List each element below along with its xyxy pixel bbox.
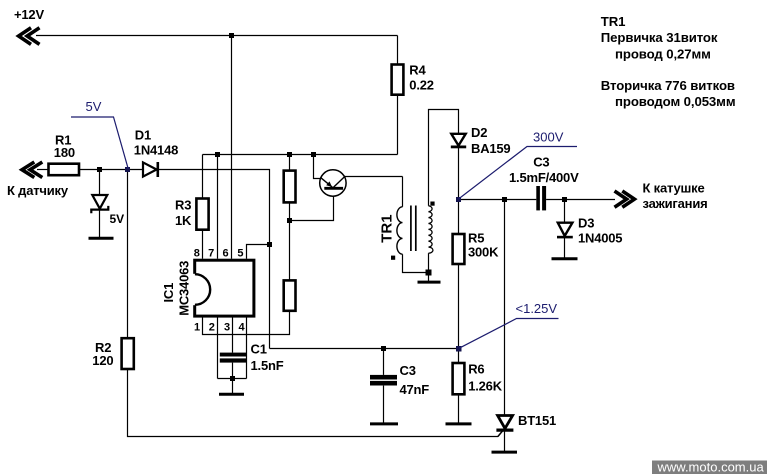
svg-text:R3: R3 [175, 198, 191, 213]
junction feedback / C3 47nF [381, 346, 386, 351]
junction C1 ground node [230, 376, 235, 381]
wire R5 bottom lead [458, 264, 460, 349]
wire zener to ground [99, 209, 101, 239]
svg-text:C1: C1 [251, 342, 267, 357]
svg-text:www.moto.com.ua: www.moto.com.ua [657, 459, 765, 474]
svg-text:зажигания: зажигания [643, 196, 708, 211]
svg-text:0.22: 0.22 [409, 77, 434, 92]
wire +12V rail [36, 35, 398, 37]
svg-text:8: 8 [194, 248, 200, 260]
resistor chain upper (unlabeled) [284, 171, 296, 203]
wire transformer ground stub [428, 273, 430, 283]
wire switch net horizontal [203, 154, 398, 156]
wire R3 to pin8 [202, 230, 204, 259]
wire D3 top lead [564, 200, 566, 223]
junction chain base node [287, 218, 292, 223]
wire BT151 cathode to ground [504, 430, 506, 452]
svg-text:R4: R4 [409, 62, 426, 77]
arrow to ignition coil [615, 191, 635, 207]
svg-text:TR1: TR1 [378, 214, 395, 242]
svg-text:D1: D1 [135, 128, 151, 143]
junction pin5 node [267, 242, 272, 247]
svg-text:5V: 5V [86, 99, 102, 114]
op IC1 MC34063 body [192, 260, 254, 316]
svg-text:К катушке: К катушке [643, 180, 705, 195]
transformer TR1 secondary winding [429, 206, 433, 253]
wire C3 to output arrow [546, 199, 615, 201]
wire pin6 drop from +12V [231, 36, 233, 259]
junction R2 tap / 5V target [125, 167, 130, 172]
wire R4 top lead [397, 36, 399, 65]
wire pin1 to chain bottom [203, 311, 290, 335]
svg-text:C3: C3 [533, 154, 549, 169]
junction +12V/pin6 [229, 33, 234, 38]
junction feedback divider node [456, 346, 462, 352]
transformer TR1 primary winding [397, 207, 403, 254]
wire pin5 stub [247, 245, 270, 259]
resistor R5 [453, 234, 465, 264]
svg-text:300K: 300K [468, 244, 499, 259]
wire pin4 drop [246, 318, 248, 379]
svg-text:300V: 300V [533, 130, 564, 145]
ground BT151 [492, 451, 518, 454]
transformer TR1 core [411, 206, 416, 252]
resistor R1 [49, 164, 80, 176]
wire transistor base to chain node [290, 188, 334, 220]
resistor chain lower (unlabeled) [284, 280, 296, 310]
capacitor C1 [220, 353, 246, 363]
wire R3 top lead [202, 155, 204, 199]
ground R6 [446, 422, 472, 425]
svg-text:120: 120 [92, 353, 113, 368]
wire primary top lead [402, 177, 404, 207]
svg-text:1N4148: 1N4148 [134, 143, 178, 158]
wire D1 to pin5 corner [158, 170, 270, 245]
svg-text:4: 4 [239, 321, 246, 333]
svg-text:1.5mF/400V: 1.5mF/400V [509, 170, 579, 185]
resistor R4 [392, 65, 404, 95]
wire R6 to ground [458, 394, 460, 424]
diode D1 [143, 162, 158, 177]
svg-text:Первичка 31виток: Первичка 31виток [601, 30, 718, 45]
zener diode 5V [91, 195, 108, 213]
ground C3 47nF [370, 422, 398, 425]
svg-text:R6: R6 [468, 362, 484, 377]
transistor Q1 [320, 170, 346, 196]
diode D3 [557, 223, 573, 237]
junction BT151 anode tap [502, 197, 507, 202]
svg-text:5V: 5V [110, 212, 125, 226]
wire feedback drop [269, 245, 271, 349]
wire secondary top to D2 bracket [429, 110, 459, 206]
blue annotation 1.25V [459, 319, 559, 349]
wire D3 to ground [564, 237, 566, 259]
wire R5 top lead [458, 200, 460, 235]
wire C1 bottom bus [218, 378, 247, 380]
wire chain resistor top lead [289, 155, 291, 171]
svg-text:C3: C3 [400, 363, 416, 378]
wire D2 cathode to 300V node [458, 148, 460, 200]
junction transformer bottom [426, 270, 432, 276]
svg-text:+12V: +12V [14, 7, 44, 22]
junction 300V node [456, 197, 461, 202]
svg-text:проводом 0,053мм: проводом 0,053мм [615, 94, 735, 109]
svg-text:1: 1 [194, 321, 200, 333]
blue annotation 5V [71, 117, 128, 169]
wire pin2 drop [217, 318, 219, 379]
diode D2 [451, 134, 466, 147]
thyristor BT151 [496, 416, 513, 437]
svg-text:D2: D2 [471, 125, 487, 140]
resistor R3 [196, 199, 208, 230]
wire pin3 to C1 top plate [232, 318, 234, 353]
wire R2 bottom to gate rail [128, 369, 499, 437]
ground transformer [418, 281, 441, 284]
wire C3 47nF to ground [383, 386, 385, 424]
wire C3 47nF top lead [383, 349, 385, 375]
svg-text:7: 7 [208, 248, 214, 260]
wire feedback horizontal [270, 348, 459, 350]
wire primary bottom lead [403, 254, 429, 272]
svg-text:BT151: BT151 [518, 413, 556, 428]
wire transistor collector to primary [344, 176, 402, 178]
svg-text:BA159: BA159 [471, 141, 510, 156]
svg-text:5: 5 [237, 248, 243, 260]
ground D3 [552, 257, 578, 260]
transformer primary polarity dot [391, 256, 395, 260]
svg-text:Вторичка 776 витков: Вторичка 776 витков [601, 78, 735, 93]
junction zener tap [97, 167, 102, 172]
wire sensor arrow to R1 [37, 169, 49, 171]
wire zener top lead [99, 170, 101, 196]
watermark bar [652, 461, 767, 474]
junction transistor/switch net [311, 152, 316, 157]
svg-text:180: 180 [54, 145, 75, 160]
svg-text:47nF: 47nF [400, 382, 430, 397]
resistor R6 [453, 363, 465, 394]
ground C1 [219, 393, 244, 396]
junction chain/switch net [287, 152, 292, 157]
svg-text:3: 3 [224, 321, 230, 333]
svg-text:<1.25V: <1.25V [516, 301, 558, 316]
wire R1 to D1 [79, 169, 143, 171]
wire R4 bottom lead [397, 95, 399, 155]
svg-text:TR1: TR1 [601, 14, 626, 29]
wire R2 top lead [127, 170, 129, 339]
capacitor C3 1.5mF/400V [536, 186, 546, 210]
resistor R2 [122, 338, 134, 369]
svg-text:1N4005: 1N4005 [578, 230, 622, 245]
svg-text:1.5nF: 1.5nF [251, 358, 284, 373]
arrow +12V input [19, 28, 40, 45]
ground zener [89, 237, 114, 240]
blue annotation 300V [459, 147, 578, 200]
wire R6 top lead [458, 349, 460, 364]
svg-text:провод 0,27мм: провод 0,27мм [615, 47, 711, 62]
svg-text:6: 6 [223, 248, 229, 260]
svg-text:1.26K: 1.26K [468, 378, 503, 393]
svg-text:1K: 1K [175, 213, 192, 228]
transformer secondary polarity dot [430, 202, 434, 206]
capacitor C3 47nF [370, 375, 397, 386]
junction pin7/switch net [215, 152, 220, 157]
svg-text:IC1: IC1 [161, 283, 176, 303]
wire secondary bottom lead [428, 253, 430, 272]
svg-text:D3: D3 [578, 215, 594, 230]
wire C1 bottom plate to bus [232, 363, 234, 379]
wire 300V node to C3 [459, 199, 537, 201]
junction D3 tap [562, 197, 567, 202]
wire C1 bus to ground [232, 379, 234, 395]
arrow to sensor [22, 162, 42, 178]
wire pin7 drop [217, 155, 219, 259]
svg-text:MC34063: MC34063 [176, 261, 191, 316]
svg-text:К датчику: К датчику [7, 183, 69, 198]
svg-text:2: 2 [209, 321, 215, 333]
wire BT151 anode drop [504, 200, 506, 416]
wire chain resistors middle [289, 203, 291, 281]
wire transistor left drop [314, 155, 322, 179]
